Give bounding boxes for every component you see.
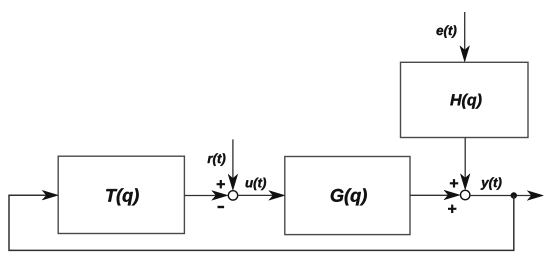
- wire G(q) to sum S2: [410, 190, 460, 200]
- summing junction S1: [228, 191, 237, 200]
- label y(t): [481, 177, 502, 189]
- label u(t): [246, 178, 266, 190]
- label e(t): [437, 25, 457, 37]
- block T(q): [58, 156, 184, 233]
- label r(t): [208, 153, 226, 165]
- minus sign at S1: [218, 206, 225, 208]
- node dot on output wire: [511, 192, 517, 198]
- wire H(q) to sum S2: [460, 138, 470, 190]
- wire r(t) into sum S1: [228, 139, 238, 190]
- wire sum S1 to G(q): [238, 191, 285, 201]
- block H(q): [401, 62, 529, 137]
- plus sign at S1: [217, 180, 225, 188]
- wire sum S2 to output y(t): [470, 191, 543, 201]
- plus sign lower at S2: [448, 205, 456, 213]
- block G(q): [285, 157, 410, 235]
- wire e(t) into H(q): [460, 12, 470, 62]
- wire T(q) to sum S1: [184, 191, 227, 201]
- feedback wire node to T(q) input: [9, 190, 514, 250]
- summing junction S2: [461, 190, 470, 199]
- plus sign upper at S2: [450, 179, 458, 187]
